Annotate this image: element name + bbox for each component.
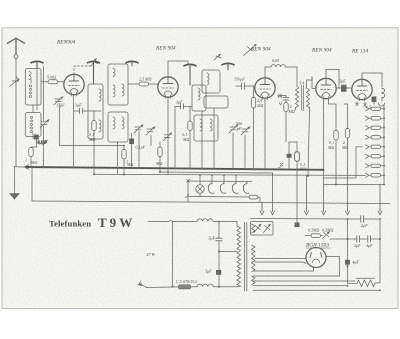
- var cap st1b: [146, 127, 155, 136]
- var cap st1a: [134, 125, 143, 134]
- if1 box right bottom: [108, 112, 128, 142]
- var cap st2b: [241, 127, 250, 136]
- voltage ladder: [379, 103, 385, 185]
- resistor 2,5M st3: [251, 98, 255, 109]
- tube1 cathode var cap: [54, 97, 63, 105]
- coil i: [200, 119, 202, 131]
- if2 big box: [204, 96, 228, 108]
- grid tee T1: [31, 61, 43, 68]
- filter cap 5uF a: [216, 238, 222, 241]
- var cap st1c: [163, 133, 172, 141]
- secondary hv: [252, 245, 256, 272]
- if2 lower box: [194, 115, 218, 141]
- x marks tube5: [356, 103, 367, 106]
- mains vertical: [172, 222, 174, 287]
- det top wire: [289, 141, 297, 143]
- avc line: [60, 105, 125, 146]
- dial lamp row top: [188, 180, 252, 183]
- barretter coil: [197, 284, 213, 287]
- trim cap var: [40, 120, 49, 129]
- secondary top: [252, 224, 256, 233]
- resistor 0,1M st1: [92, 121, 96, 131]
- lamp feed tick: [199, 175, 201, 181]
- supply line: [32, 201, 390, 204]
- hook2 tick: [223, 175, 225, 181]
- tube4 grid wire: [312, 77, 316, 89]
- wave switch: [91, 59, 98, 67]
- barretter lead: [146, 286, 178, 289]
- switch st3: [214, 54, 222, 60]
- bottom wire 276: [253, 275, 340, 277]
- lamp row left: [187, 181, 189, 202]
- selector fuse 2: [264, 224, 271, 233]
- heater hook 2: [220, 181, 226, 193]
- tube2 cathode: [167, 97, 169, 175]
- rect cathode loop: [253, 267, 314, 271]
- grid tee T3: [126, 61, 138, 66]
- series resistor lamp: [249, 195, 258, 199]
- bottom wire 290: [253, 289, 380, 291]
- if1 bottom lead: [117, 142, 119, 174]
- st2 var wires: [233, 133, 245, 169]
- resistor st2: [188, 121, 192, 131]
- cap 0.1uF blob st1: [129, 139, 134, 145]
- grid tee T4: [184, 64, 196, 85]
- x mark fuse: [187, 179, 190, 182]
- coil j: [210, 119, 212, 131]
- output jacks: [382, 88, 385, 97]
- arrowheads: [16, 54, 329, 234]
- resistor tap: [158, 147, 162, 157]
- tube2 REN904: [158, 77, 178, 99]
- rgn label underline: [306, 247, 330, 249]
- bottom wire 286: [253, 285, 348, 287]
- primary tap: [219, 251, 237, 253]
- coil h: [207, 73, 209, 85]
- coil g: [198, 88, 200, 100]
- tube1 REN904: [64, 74, 84, 96]
- wires st1 down: [139, 131, 151, 168]
- tube3 REN904: [255, 78, 275, 100]
- resistors 0,5M row: [311, 234, 321, 238]
- antenna trim cap: [10, 77, 19, 87]
- tube1 plate dashes: [74, 66, 91, 75]
- coil c: [113, 85, 115, 97]
- ground: [10, 167, 19, 199]
- resistor 0,1M right: [334, 131, 338, 141]
- resistor 510 ohm: [48, 80, 58, 84]
- box B lead: [33, 105, 35, 139]
- choke top: [197, 219, 213, 222]
- st2 verticals: [202, 108, 214, 169]
- heater hook 1: [208, 181, 214, 193]
- right lower bus: [324, 170, 384, 185]
- tube5 RE134: [352, 79, 372, 101]
- coupler box B: [25, 113, 41, 137]
- tube4/5 bottom wires: [324, 100, 336, 185]
- bus left chevron: [25, 165, 29, 169]
- antenna coil: [29, 72, 31, 80]
- filter vertical: [218, 222, 220, 287]
- bias vertical: [31, 167, 33, 201]
- filter cap 5uF b blob: [216, 270, 221, 275]
- box A stem: [31, 69, 37, 111]
- hook1 tick: [211, 175, 213, 181]
- coil a: [99, 89, 101, 101]
- var cap st2a: [229, 125, 238, 134]
- wire antenna to bus: [14, 166, 25, 168]
- heater bus: [94, 174, 366, 175]
- plate choke: [271, 65, 285, 67]
- cap 5uF blob: [336, 85, 352, 92]
- tube5 plate loop: [362, 73, 382, 87]
- resistor 1M st1: [122, 150, 126, 160]
- wire trap to bus: [43, 67, 45, 168]
- ground bus (thick): [26, 167, 324, 170]
- cap 3mF grid1: [74, 108, 102, 113]
- ladder taps: [366, 107, 385, 178]
- if2 box top: [202, 70, 220, 93]
- selector fuse 1: [254, 224, 261, 233]
- corner tick: [186, 195, 190, 198]
- ladder tap feed: [324, 147, 363, 178]
- resistor det: [295, 152, 300, 161]
- if2 box left: [192, 85, 206, 111]
- tube3 cathode down: [264, 98, 266, 169]
- x mark: [279, 94, 283, 105]
- coil b: [113, 69, 115, 77]
- cap 4uF blob: [345, 260, 350, 265]
- tube3 plate to choke: [265, 67, 271, 78]
- transformer core: [245, 223, 247, 292]
- cap 3mF st2: [175, 104, 192, 109]
- cap 150uF: [236, 83, 254, 89]
- cap out blob: [372, 97, 377, 103]
- x scribble: [278, 163, 283, 168]
- if1 coil box left: [88, 84, 103, 139]
- coil f: [122, 117, 124, 129]
- cap 0.1uF blob: [34, 135, 39, 140]
- dial lamp: [196, 181, 204, 196]
- cathode wire: [73, 95, 75, 168]
- resistor 2M t4: [284, 103, 288, 112]
- rect anode wires: [255, 259, 306, 264]
- tube4 plate loop: [326, 70, 339, 89]
- screen bus: [160, 172, 273, 173]
- band switch arrow: [244, 45, 257, 56]
- barretter resistor: [179, 285, 191, 289]
- mains switch arrow: [138, 281, 147, 287]
- rect tube RGN1503: [306, 248, 326, 268]
- heater arrows: [260, 173, 382, 215]
- resistor 2M right: [345, 129, 349, 139]
- heater hook 4: [243, 182, 249, 194]
- winding text a: [29, 85, 31, 98]
- right vertical: [379, 219, 381, 283]
- mains top wire: [148, 221, 171, 222]
- dial lamp row bottom: [188, 196, 249, 199]
- coil d: [122, 84, 124, 96]
- antenna lead: [15, 59, 17, 167]
- mains arrowhead: [139, 283, 142, 286]
- tube4 REN904: [316, 78, 336, 100]
- blob cap det: [287, 154, 292, 158]
- transformer primary: [237, 222, 241, 287]
- heater hook 3: [232, 181, 238, 193]
- antenna coil box: [25, 69, 41, 106]
- load resistor: [348, 280, 381, 287]
- hook3 tick: [235, 175, 237, 181]
- mid caps row: [357, 236, 371, 242]
- coil a2: [99, 120, 101, 132]
- output transformer T.4: [296, 77, 313, 176]
- ladder dots: [383, 108, 385, 186]
- if1 box right top: [108, 64, 128, 105]
- grid tee T5: [222, 63, 234, 70]
- grid cap t4: [283, 98, 289, 100]
- rect plate right: [326, 257, 340, 277]
- antenna insulator: [14, 55, 18, 59]
- winding text b: [30, 116, 32, 132]
- secondary fil: [252, 276, 256, 285]
- tube2 plate wire: [168, 61, 188, 77]
- bottom wire 281: [253, 280, 355, 282]
- cap 2uF top: [348, 216, 381, 223]
- voltage selector box: [251, 222, 274, 236]
- resistor 2,5M coupling: [139, 82, 149, 86]
- resistor 1M: [29, 148, 33, 157]
- coil e: [113, 117, 115, 129]
- grid tee T2: [88, 61, 100, 84]
- anode supply line: [250, 218, 348, 221]
- blob cap det2: [295, 223, 300, 228]
- antenna: [8, 38, 25, 54]
